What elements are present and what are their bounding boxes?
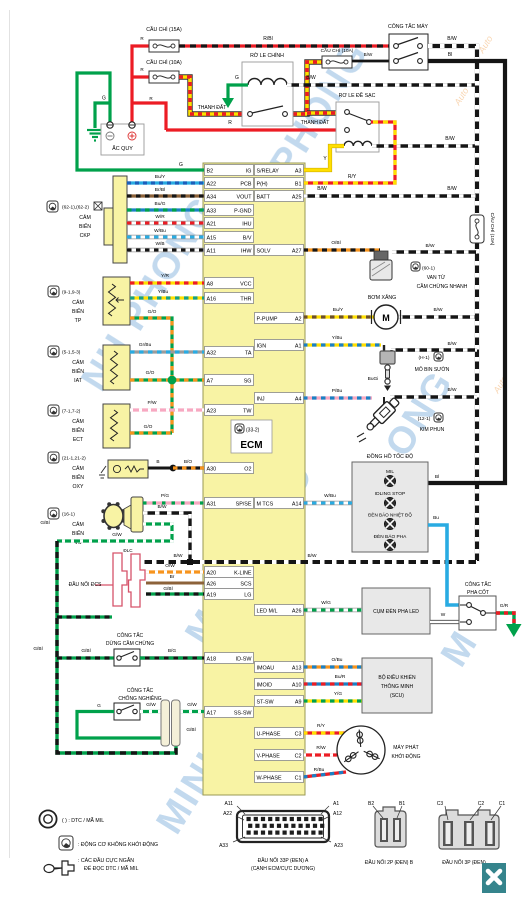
wire B/G idle stop to A18: [140, 656, 204, 659]
ground arrow dimmer: [506, 624, 522, 637]
ECM pin A30 O2: [205, 463, 254, 474]
wire R battery positive to fuses: [132, 46, 149, 124]
svg-text:B/O: B/O: [184, 459, 193, 465]
wire W/Bu ECM M TCS to speedometer: [303, 501, 352, 505]
svg-text:DỪNG CẦM CHỪNG: DỪNG CẦM CHỪNG: [106, 640, 154, 647]
wire Bl fuse to ignition switch: [352, 60, 389, 63]
wire Y/R main relay to starter relay branch: [285, 62, 322, 114]
wire B/W valve to bus: [392, 250, 477, 253]
svg-text:Gr/Bu: Gr/Bu: [139, 342, 152, 348]
svg-text:BATT: BATT: [257, 194, 271, 200]
wire G battery ground stub: [95, 103, 110, 128]
svg-text:TP: TP: [75, 318, 82, 324]
svg-text:Br/Bl: Br/Bl: [155, 187, 165, 193]
svg-text:IDLING STOP: IDLING STOP: [375, 491, 405, 497]
wire W/Bu CKP to A15: [127, 235, 204, 239]
legend engine no start symbol: [59, 836, 73, 850]
svg-text:G/Bl: G/Bl: [33, 646, 42, 652]
svg-text:K-LINE: K-LINE: [234, 570, 252, 576]
svg-text:CHỐNG NGHIÊNG: CHỐNG NGHIÊNG: [118, 694, 161, 702]
svg-text:G/W: G/W: [112, 532, 122, 538]
svg-text:A16: A16: [207, 296, 217, 302]
ECM pin B2 IG: [205, 165, 254, 176]
label CAM BIEN VS: [48, 508, 59, 519]
ECM pin A33 P-GND: [205, 205, 254, 216]
wire R/Y ECM P(H) to starter relay: [303, 122, 395, 183]
svg-text:ẮC QUY: ẮC QUY: [112, 144, 133, 152]
svg-text:THÔNG MINH: THÔNG MINH: [381, 683, 414, 690]
svg-text:(16-1): (16-1): [62, 512, 75, 518]
svg-text:CẢM: CẢM: [79, 214, 91, 221]
label CAM BIEN IAT: [48, 346, 59, 357]
svg-text:B/W: B/W: [447, 186, 457, 192]
svg-text:R/Bl: R/Bl: [263, 36, 272, 42]
svg-text:M: M: [382, 313, 390, 323]
wire R branch to 10A fuse: [132, 75, 149, 78]
svg-text:P-PUMP: P-PUMP: [257, 316, 278, 322]
wire G/Bl DLC to A19 LG: [146, 592, 204, 595]
svg-text:Y/Bu: Y/Bu: [332, 335, 343, 341]
ECM pin A3 S/RELAY: [255, 165, 304, 176]
svg-text:A33: A33: [219, 843, 228, 849]
motor BOM XANG: [372, 305, 401, 329]
wire Y/R stub to starter relay terminal: [307, 110, 344, 115]
svg-text:B/W: B/W: [447, 36, 457, 42]
ECM pin A13 IMOAU: [255, 662, 304, 673]
wire R/Bl fuse to ignition switch: [179, 44, 389, 47]
ECM pin A20 K-LINE: [205, 567, 254, 578]
sensor CAM BIEN OXY: [99, 460, 148, 478]
svg-text:ST-SW: ST-SW: [257, 699, 275, 705]
svg-text:Bu/Y: Bu/Y: [333, 307, 344, 313]
junction B/W: [187, 559, 193, 565]
svg-text:(33-2): (33-2): [246, 428, 260, 434]
svg-text:A12: A12: [333, 811, 342, 817]
junction O2: [170, 465, 177, 472]
svg-text:B/G: B/G: [168, 648, 177, 654]
svg-text:P/G: P/G: [161, 493, 170, 499]
injector KIM PHUN: [357, 396, 401, 442]
svg-text:IMOAU: IMOAU: [257, 665, 275, 671]
wire B/W pump to bus: [398, 315, 477, 318]
svg-text:B/W: B/W: [173, 553, 183, 559]
svg-text:Y/G: Y/G: [334, 691, 343, 697]
wire Br DLC to A26 SCS: [146, 582, 204, 585]
svg-text:C3: C3: [295, 731, 302, 737]
svg-text:PCB: PCB: [240, 181, 251, 187]
svg-text:G/Bl: G/Bl: [81, 648, 90, 654]
svg-text:B1: B1: [295, 181, 302, 187]
ground symbol battery: [87, 130, 103, 141]
ECM pin A22 PCB: [205, 178, 254, 189]
svg-text:RƠ LE ĐỀ SẠC: RƠ LE ĐỀ SẠC: [339, 92, 376, 99]
lamp MIL: [384, 475, 395, 486]
ECM pin C3 U-PHASE: [255, 728, 304, 739]
relay RO LE DE SAC: [336, 102, 379, 152]
ECM pin A34 VOUT: [205, 191, 254, 202]
SCU box: [362, 658, 432, 713]
ECM pin A25 BATT: [255, 191, 304, 202]
svg-text:IHW: IHW: [241, 248, 252, 254]
wire Y/Bu ECM IGN to coil: [303, 343, 381, 346]
svg-text:ĐẦU NỐI 3P (ĐEN): ĐẦU NỐI 3P (ĐEN): [442, 859, 486, 866]
sensor CAM BIEN TP: [103, 277, 130, 325]
label CAM BIEN ECT: [48, 405, 59, 416]
svg-text:A32: A32: [207, 350, 217, 356]
svg-text:LG: LG: [244, 592, 251, 598]
svg-text:ID-SW: ID-SW: [236, 656, 253, 662]
sensor CAM BIEN ECT: [103, 404, 130, 448]
svg-text:THANH ĐẤT: THANH ĐẤT: [198, 104, 227, 111]
svg-text:VAN TỪ: VAN TỪ: [427, 274, 446, 281]
svg-text:W/R: W/R: [155, 214, 165, 220]
svg-text:G/W: G/W: [187, 702, 197, 708]
svg-text:O/Bu: O/Bu: [332, 657, 343, 663]
wire O/Bu ECM IMOAU to SCU: [303, 665, 362, 668]
svg-text:OXY: OXY: [73, 484, 84, 490]
svg-text:CÔNG TẮC: CÔNG TẮC: [117, 631, 144, 639]
sensor CAM BIEN VS: [101, 497, 143, 532]
ECM pin C1 W-PHASE: [255, 772, 304, 783]
wire G tilt switch loop: [77, 712, 166, 747]
svg-text:BIẾN: BIẾN: [72, 474, 84, 481]
svg-text:CẦU CHÌ (10A): CẦU CHÌ (10A): [146, 59, 182, 66]
svg-text:C1: C1: [499, 801, 506, 807]
sensor CAM BIEN IAT: [103, 345, 130, 390]
wire Y/Bu TP THR to A16: [130, 296, 204, 299]
ECM pin A8 VCC: [205, 278, 254, 289]
label CAM BIEN OXY: [48, 452, 59, 463]
ECM pin A23 TW: [205, 405, 254, 416]
connector CKP sensor block: [104, 176, 127, 263]
svg-text:A22: A22: [223, 811, 232, 817]
svg-text:Bu/Y: Bu/Y: [155, 174, 166, 180]
ignition coil MO BIN SUON: [380, 345, 395, 391]
svg-text:MIL: MIL: [386, 469, 394, 475]
svg-text:BuGi: BuGi: [368, 376, 379, 382]
svg-text:A33: A33: [207, 208, 217, 214]
svg-text:(21-1,21-2): (21-1,21-2): [62, 456, 86, 462]
solenoid VAN TU CAM CHUNG NHANH: [370, 251, 392, 280]
svg-text:CÔNG TẮC: CÔNG TẮC: [465, 580, 492, 588]
svg-text:R/Y: R/Y: [317, 723, 326, 729]
svg-text:SCS: SCS: [240, 581, 251, 587]
wire W/R CKP to A21: [127, 221, 204, 225]
ground arrow main relay: [222, 98, 234, 108]
svg-text:P/W: P/W: [147, 400, 157, 406]
switch CONG TAC CHONG NGHIENG: [114, 703, 140, 720]
svg-text:B: B: [156, 459, 159, 465]
fuse CAU CHI 10A on bus: [470, 215, 484, 243]
svg-text:U-PHASE: U-PHASE: [257, 731, 281, 737]
generator MAY PHAT KHOI DONG: [337, 726, 385, 774]
svg-text:ĐẦU NỐI 33P (ĐEN) A: ĐẦU NỐI 33P (ĐEN) A: [258, 857, 309, 864]
ECM pin A26 LED M/L: [255, 605, 304, 616]
svg-text:Bu: Bu: [433, 515, 439, 521]
wire Y/G ECM ST-SW to SCU: [303, 699, 362, 702]
ECM pin A16 THR: [205, 293, 254, 304]
svg-text:C2: C2: [478, 801, 485, 807]
svg-text:BIẾN: BIẾN: [72, 427, 84, 434]
ECM pin A10 IMOID: [255, 679, 304, 690]
fuse CAU CHI 15A: [149, 40, 179, 52]
svg-text:(H-1): (H-1): [419, 355, 430, 361]
wire O/W DLC to A20 K-LINE: [146, 570, 204, 573]
svg-text:ĐẦU NỐI 2P (ĐEN) B: ĐẦU NỐI 2P (ĐEN) B: [365, 859, 414, 866]
svg-text:CẢM: CẢM: [72, 465, 84, 472]
svg-text:B/W: B/W: [447, 341, 457, 347]
wire P/W ECT to A23 TW: [130, 408, 204, 411]
ECM pin A17 SS-SW: [205, 707, 254, 718]
svg-text:Bu/R: Bu/R: [335, 674, 346, 680]
wire G/W VS to left bus: [57, 524, 172, 541]
wire Y/R fuse to main relay contact: [179, 77, 246, 114]
wire Y ECM S/RELAY to relay coil: [303, 146, 344, 170]
svg-text:SS-SW: SS-SW: [234, 710, 253, 716]
svg-text:VOUT: VOUT: [237, 194, 253, 200]
svg-text:G: G: [97, 703, 101, 709]
svg-text:A34: A34: [207, 194, 217, 200]
svg-text:B/W: B/W: [317, 186, 327, 192]
svg-text:ĐLC: ĐLC: [123, 548, 133, 553]
svg-text:VCC: VCC: [240, 281, 251, 287]
svg-text:B2: B2: [368, 801, 374, 807]
wire B/W bus vertical: [428, 46, 477, 562]
svg-text:G/Bl: G/Bl: [163, 586, 172, 592]
svg-text:IAT: IAT: [74, 378, 83, 384]
svg-text:O/W: O/W: [165, 563, 175, 569]
ECM body: [203, 163, 305, 795]
svg-text:R/W: R/W: [316, 745, 326, 751]
svg-text:A23: A23: [207, 408, 217, 414]
svg-text:(60-1): (60-1): [422, 266, 435, 272]
svg-text:M TCS: M TCS: [257, 501, 274, 507]
wire O/Bl ECM SOLV to valve: [303, 248, 380, 251]
svg-text:TA: TA: [245, 350, 252, 356]
svg-text:A4: A4: [295, 396, 302, 402]
svg-text:G/O: G/O: [146, 370, 155, 376]
ECM pin A14 M TCS: [255, 498, 304, 509]
wire G/O IAT to A7 SG: [130, 378, 204, 381]
svg-text:( ) : DTC / MÃ MIL: ( ) : DTC / MÃ MIL: [62, 817, 104, 824]
fuse CAU CHI 10A left: [149, 71, 179, 83]
svg-text:ĐÈN BÁO PHA: ĐÈN BÁO PHA: [374, 533, 408, 540]
svg-text:A3: A3: [295, 168, 302, 174]
svg-text:B/W: B/W: [433, 307, 443, 313]
svg-text:BIẾN: BIẾN: [72, 308, 84, 315]
wire G battery negative to ECM B2: [77, 73, 204, 170]
wire R/Y U-PHASE to generator: [303, 731, 345, 734]
wire W LED unit to dimmer: [430, 620, 460, 624]
svg-text:CẢM: CẢM: [72, 359, 84, 366]
svg-text:Y/R: Y/R: [161, 273, 170, 279]
svg-text:B/W: B/W: [445, 136, 455, 142]
svg-text:Bl: Bl: [448, 52, 452, 58]
svg-text:CÔNG TẮC MÁY: CÔNG TẮC MÁY: [388, 22, 429, 30]
svg-text:BIẾN: BIẾN: [72, 368, 84, 375]
svg-text:C2: C2: [295, 753, 302, 759]
wire R battery to starter relay: [166, 128, 344, 131]
svg-text:P-GND: P-GND: [234, 208, 251, 214]
wire G main relay coil to ground: [228, 85, 248, 98]
svg-text:CỤM ĐÈN PHA LED: CỤM ĐÈN PHA LED: [373, 608, 419, 615]
ECM pin B1 P(H): [255, 178, 304, 189]
svg-text:CÔNG TẮC: CÔNG TẮC: [127, 686, 154, 694]
wire Gr/Bu IAT to A32: [130, 350, 204, 353]
ECM pin A4 INJ: [255, 393, 304, 404]
svg-text:ĐÈN BÁO NHIỆT ĐỘ: ĐÈN BÁO NHIỆT ĐỘ: [368, 511, 412, 518]
wire G/Bl DLC to left bus: [57, 615, 112, 618]
svg-text:A21: A21: [207, 221, 217, 227]
wire P/G VS to A31: [143, 501, 204, 504]
svg-text:A30: A30: [207, 466, 217, 472]
svg-text:G: G: [102, 96, 106, 102]
svg-text:(CẠNH ECM/CỰC DƯƠNG): (CẠNH ECM/CỰC DƯƠNG): [251, 866, 315, 872]
svg-text:B/W: B/W: [447, 387, 457, 393]
svg-text:A22: A22: [207, 181, 217, 187]
svg-text:A15: A15: [207, 235, 217, 241]
svg-text:O/Bl: O/Bl: [331, 240, 340, 246]
ECM pin A15 B/V: [205, 232, 254, 243]
ECM pin A18 ID-SW: [205, 653, 254, 664]
wire Bu/Y CKP to A22: [127, 181, 204, 184]
speedometer DONG HO TOC DO: [352, 462, 428, 552]
svg-text:A1: A1: [333, 801, 339, 807]
legend jumper symbol: [44, 861, 74, 875]
wire W/G ECM LED M/L to LED unit: [303, 608, 362, 612]
svg-text:A26: A26: [207, 581, 217, 587]
wire B O2 sensor lead: [148, 467, 173, 470]
svg-text:CẢM: CẢM: [72, 418, 84, 425]
svg-text:CẦU CHÌ (10A): CẦU CHÌ (10A): [321, 47, 354, 54]
svg-text:A14: A14: [292, 501, 302, 507]
wire B/W injector to bus: [390, 395, 477, 398]
svg-text:A25: A25: [292, 194, 302, 200]
lamp DEN BAO PHA: [384, 539, 395, 550]
wire B/W main relay coil to bus: [287, 83, 477, 86]
svg-text:A23: A23: [334, 843, 343, 849]
ECM pin A7 SG: [205, 375, 254, 386]
connector DAU NOI 2P: [375, 807, 406, 847]
svg-text:W/Bu: W/Bu: [154, 228, 166, 234]
wire P/Bu ECM INJ to injector: [303, 396, 372, 399]
fuse CAU CHI 10A upper: [322, 56, 352, 68]
svg-text:THR: THR: [240, 296, 251, 302]
svg-text:G/Bl: G/Bl: [40, 520, 49, 526]
svg-text:MÁY PHÁT: MÁY PHÁT: [393, 744, 418, 751]
svg-text:LED M/L: LED M/L: [257, 608, 278, 614]
lamp DEN BAO NHIET DO: [384, 518, 395, 529]
label VAN TU: [411, 262, 420, 271]
svg-text:W/B: W/B: [155, 241, 164, 247]
ECM pin A19 LG: [205, 589, 254, 600]
ECM pin A32 TA: [205, 347, 254, 358]
wire G/Bl left bus: [57, 541, 176, 753]
connector 2P tilt: [161, 700, 180, 746]
wire B/W ECM BATT to bus: [303, 194, 477, 197]
svg-text:A1: A1: [295, 343, 302, 349]
wire G/W connector to A17: [180, 710, 204, 713]
connector DLC (red): [95, 553, 145, 607]
svg-text:KIM PHUN: KIM PHUN: [420, 427, 445, 433]
svg-text:BIẾN: BIẾN: [79, 223, 91, 230]
ECM label: [231, 420, 272, 453]
svg-text:Bl: Bl: [435, 474, 439, 480]
wire B/W DLC to bus corner: [140, 560, 477, 564]
svg-text:Bu/G: Bu/G: [155, 201, 166, 207]
wire Y/R TP VCC to A8: [130, 281, 204, 284]
ECM pin A26 SCS: [205, 578, 254, 589]
svg-text:ĐỂ ĐỌC DTC / MÃ MIL: ĐỂ ĐỌC DTC / MÃ MIL: [84, 865, 139, 872]
wire R/Bu W-PHASE to generator: [303, 772, 346, 777]
close button: [482, 863, 506, 893]
switch CONG TAC DUNG CAM CHUNG: [114, 649, 140, 666]
ECM pin A1 IGN: [255, 340, 304, 351]
connector DAU NOI 33P: [237, 811, 329, 842]
ECM pin A31 SP/SE: [205, 498, 254, 509]
switch CONG TAC MAY: [389, 34, 428, 70]
svg-text:R: R: [228, 120, 232, 126]
wire G/O TP SG drop: [130, 318, 172, 433]
wire Br/Bl CKP to A34: [127, 194, 204, 197]
svg-text:CKP: CKP: [80, 233, 91, 239]
svg-text:BIẾN: BIẾN: [72, 530, 84, 537]
svg-text:A18: A18: [207, 656, 217, 662]
svg-text:A11: A11: [224, 801, 233, 807]
svg-text:PHA CỐT: PHA CỐT: [467, 589, 489, 596]
svg-text:G/Bl: G/Bl: [186, 727, 195, 733]
svg-text:BƠM XĂNG: BƠM XĂNG: [368, 294, 396, 301]
LED unit CUM DEN PHA LED: [362, 588, 430, 634]
svg-text:V-PHASE: V-PHASE: [257, 753, 281, 759]
svg-text:(12-1): (12-1): [418, 416, 431, 422]
svg-text:S/RELAY: S/RELAY: [257, 168, 280, 174]
svg-text:(5-1,5-3): (5-1,5-3): [62, 350, 81, 356]
svg-text:IMOID: IMOID: [257, 682, 273, 688]
svg-text:TW: TW: [243, 408, 252, 414]
svg-text:G: G: [235, 75, 239, 81]
svg-text:IGN: IGN: [257, 343, 267, 349]
svg-text:SG: SG: [244, 378, 252, 384]
svg-text:A13: A13: [292, 665, 302, 671]
svg-text:A17: A17: [207, 710, 217, 716]
svg-text:A20: A20: [207, 570, 217, 576]
relay RO LE CHINH: [242, 62, 293, 126]
svg-text:C3: C3: [437, 801, 444, 807]
wire B/W relay coil to bus: [372, 144, 477, 147]
svg-text:B2: B2: [207, 168, 214, 174]
svg-text:P(H): P(H): [257, 181, 268, 187]
svg-text:R/Bu: R/Bu: [314, 767, 325, 773]
wire R/W V-PHASE to generator: [303, 753, 337, 756]
battery AC QUY: [101, 122, 144, 155]
svg-text:MÔ BIN SƯỜN: MÔ BIN SƯỜN: [415, 366, 450, 373]
wire Bu speedometer to dimmer switch: [428, 525, 460, 605]
svg-text:P/Bu: P/Bu: [332, 388, 343, 394]
ECM pin A2 P-PUMP: [255, 313, 304, 324]
svg-text:A27: A27: [292, 248, 302, 254]
wire G/R dimmer to ground: [496, 613, 514, 624]
svg-text:ECM: ECM: [240, 440, 262, 451]
svg-text:B/V: B/V: [243, 235, 252, 241]
connector DAU NOI 3P: [439, 810, 499, 849]
svg-text:B1: B1: [399, 801, 405, 807]
svg-text:CẢM: CẢM: [72, 299, 84, 306]
svg-text:G/O: G/O: [144, 424, 153, 430]
wire Bl ignition switch to speedometer: [428, 61, 505, 483]
svg-text:(62-1),(62-2): (62-1),(62-2): [62, 205, 89, 211]
svg-text:A11: A11: [207, 248, 216, 254]
